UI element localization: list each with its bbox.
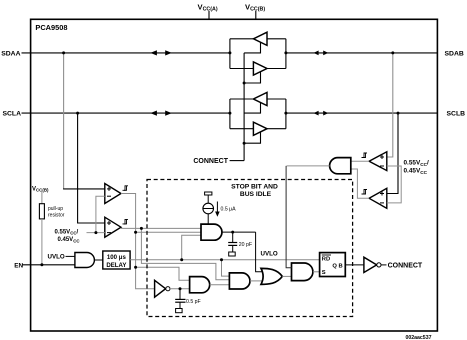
svg-text:0.55VCC/: 0.55VCC/	[55, 229, 79, 235]
svg-text:SDAA: SDAA	[1, 51, 20, 58]
svg-text:PCA9508: PCA9508	[35, 23, 67, 32]
svg-text:0.45VCC: 0.45VCC	[58, 237, 81, 243]
svg-text:STOP BIT AND: STOP BIT AND	[231, 183, 278, 190]
svg-text:SDAB: SDAB	[445, 51, 464, 58]
svg-text:BUS IDLE: BUS IDLE	[240, 191, 272, 198]
svg-text:Q B: Q B	[332, 264, 342, 270]
svg-text:UVLO: UVLO	[48, 253, 65, 260]
svg-text:100 μs: 100 μs	[107, 254, 127, 261]
svg-text:SCLA: SCLA	[2, 111, 21, 118]
svg-text:S: S	[322, 270, 326, 276]
svg-text:RD: RD	[322, 257, 330, 263]
svg-text:20 pF: 20 pF	[239, 242, 252, 248]
svg-text:SCLB: SCLB	[447, 111, 466, 118]
svg-text:VCC(B): VCC(B)	[32, 186, 49, 192]
svg-text:0.5 pF: 0.5 pF	[186, 299, 201, 305]
svg-text:DELAY: DELAY	[106, 262, 126, 269]
svg-text:002aac537: 002aac537	[406, 335, 432, 340]
svg-text:pull-up: pull-up	[48, 206, 63, 212]
svg-text:0.5 μA: 0.5 μA	[221, 206, 237, 212]
svg-text:EN: EN	[14, 262, 23, 269]
svg-text:UVLO: UVLO	[261, 250, 278, 257]
svg-text:CONNECT: CONNECT	[193, 158, 228, 165]
svg-text:resistor: resistor	[48, 212, 65, 218]
svg-text:CONNECT: CONNECT	[388, 262, 423, 269]
